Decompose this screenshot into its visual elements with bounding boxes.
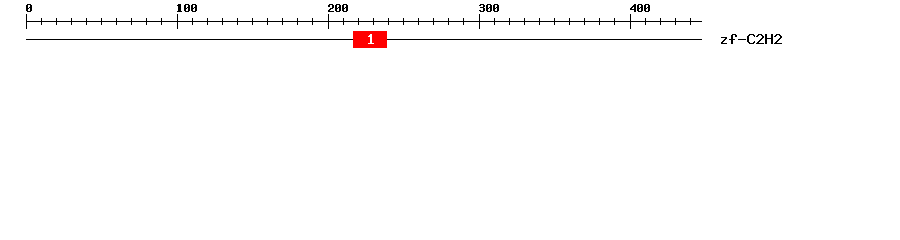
ruler major tick 0: [26, 14, 27, 29]
ruler minor tick 330: [524, 18, 525, 25]
ruler minor tick 240: [388, 18, 389, 25]
ruler minor tick 40: [86, 18, 87, 25]
ruler label 300: [479, 4, 499, 12]
ruler minor tick 130: [222, 18, 223, 25]
ruler minor tick 380: [599, 18, 600, 25]
ruler minor tick 270: [433, 18, 434, 25]
ruler minor tick 90: [161, 18, 162, 25]
ruler minor tick 150: [252, 18, 253, 25]
ruler minor tick 260: [418, 18, 419, 25]
ruler minor tick 60: [116, 18, 117, 25]
ruler minor tick 10: [41, 18, 42, 25]
ruler minor tick 50: [101, 18, 102, 25]
ruler label 0: [26, 4, 32, 12]
ruler minor tick 420: [660, 18, 661, 25]
ruler minor tick 340: [539, 18, 540, 25]
ruler major tick 100: [177, 14, 178, 29]
ruler minor tick 30: [71, 18, 72, 25]
ruler label 400: [630, 4, 650, 12]
ruler minor tick 210: [343, 18, 344, 25]
ruler minor tick 160: [267, 18, 268, 25]
ruler major tick 200: [328, 14, 329, 29]
ruler minor tick 120: [207, 18, 208, 25]
domain number 1 (white): [368, 34, 374, 44]
ruler minor tick 350: [554, 18, 555, 25]
ruler minor tick 110: [192, 18, 193, 25]
ruler minor tick 140: [237, 18, 238, 25]
ruler minor tick 410: [645, 18, 646, 25]
ruler minor tick 180: [297, 18, 298, 25]
ruler minor tick 310: [494, 18, 495, 25]
ruler minor tick 250: [403, 18, 404, 25]
ruler minor tick 170: [282, 18, 283, 25]
ruler major tick 400: [630, 14, 631, 29]
ruler minor tick 320: [509, 18, 510, 25]
ruler minor tick 70: [131, 18, 132, 25]
ruler minor tick 190: [312, 18, 313, 25]
ruler minor tick 220: [358, 18, 359, 25]
ruler minor tick 80: [146, 18, 147, 25]
ruler minor tick 290: [463, 18, 464, 25]
ruler minor tick 360: [569, 18, 570, 25]
ruler minor tick 430: [675, 18, 676, 25]
ruler minor tick 280: [448, 18, 449, 25]
domain box 1 (zf-C2H2, red): [353, 31, 387, 48]
ruler minor tick 370: [584, 18, 585, 25]
ruler label 200: [328, 4, 348, 12]
ruler label 100: [177, 4, 197, 12]
ruler major tick 300: [479, 14, 480, 29]
ruler minor tick 440: [690, 18, 691, 25]
ruler minor tick 390: [614, 18, 615, 25]
ruler line: [26, 21, 702, 22]
domain label zf-C2H2: [721, 34, 782, 44]
ruler minor tick 230: [373, 18, 374, 25]
ruler minor tick 20: [56, 18, 57, 25]
sequence line: [26, 39, 702, 40]
